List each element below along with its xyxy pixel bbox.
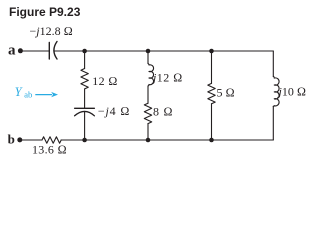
svg-text:j12 Ω: j12 Ω (151, 71, 183, 85)
svg-text:−j12.8 Ω: −j12.8 Ω (30, 24, 73, 38)
svg-text:12 Ω: 12 Ω (92, 74, 117, 88)
svg-text:13.6 Ω: 13.6 Ω (32, 142, 67, 156)
svg-text:j10 Ω: j10 Ω (277, 85, 307, 99)
svg-text:a: a (8, 43, 16, 59)
svg-text:ab: ab (24, 90, 33, 100)
svg-text:5 Ω: 5 Ω (217, 85, 235, 99)
svg-text:b: b (8, 131, 15, 146)
svg-text:Figure P9.23: Figure P9.23 (9, 5, 81, 19)
svg-text:−j4 Ω: −j4 Ω (98, 104, 130, 118)
svg-text:8 Ω: 8 Ω (153, 105, 173, 119)
